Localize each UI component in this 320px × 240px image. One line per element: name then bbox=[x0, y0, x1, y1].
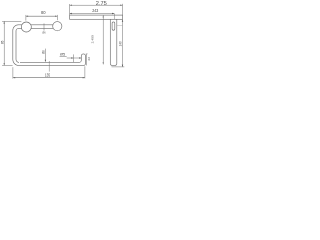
hook height rotated text 22 bbox=[87, 57, 91, 61]
svg-text:2.75: 2.75 bbox=[96, 1, 107, 7]
dimension 243 line bbox=[70, 13, 115, 15]
dimension 15 arrow at hook bbox=[79, 57, 81, 58]
dimension 240 bottom arrow bbox=[122, 65, 123, 67]
dimension 135 left arrow bbox=[13, 77, 15, 78]
dimension 60 right arrow bbox=[55, 16, 57, 17]
svg-text:Ø6: Ø6 bbox=[42, 32, 46, 35]
hook top extension tick bbox=[86, 53, 88, 55]
dimension 243 right arrow bbox=[112, 13, 114, 14]
bar rod dimension arrow bbox=[45, 60, 46, 62]
slot extension line bbox=[117, 25, 122, 27]
dimension 60 left arrow bbox=[26, 16, 28, 17]
inner vertical dimension bottom arrow bbox=[103, 62, 104, 64]
dimension 2.75 right arrow bbox=[120, 5, 122, 6]
bottom extension line left bbox=[2, 64, 13, 66]
dimension 60 text bbox=[41, 10, 46, 15]
front bar rectangle bbox=[70, 15, 123, 19]
dimension 60 right extension tick bbox=[56, 15, 58, 20]
extension line right 275 bbox=[122, 4, 124, 15]
dimension 15 leader underline bbox=[60, 55, 67, 57]
tube inner contour bbox=[16, 29, 22, 63]
dimension 15 cross extension tick bbox=[72, 54, 74, 62]
dimension 85 bottom arrow bbox=[3, 63, 4, 65]
dimension 85 vertical line bbox=[3, 21, 5, 65]
svg-text:135: 135 bbox=[45, 72, 51, 77]
svg-text:22: 22 bbox=[87, 57, 91, 61]
svg-text:Ø5: Ø5 bbox=[60, 52, 66, 57]
dimension 243 text bbox=[92, 8, 99, 13]
dimension 240 top arrow bbox=[122, 20, 123, 22]
end knob circle C2 bbox=[53, 22, 62, 31]
svg-text:Ø8: Ø8 bbox=[42, 50, 46, 54]
top bar diameter label bbox=[42, 32, 46, 35]
dimension 135 right arrow bbox=[83, 77, 85, 78]
svg-text:243: 243 bbox=[92, 8, 99, 13]
bar rod rotated text bbox=[42, 50, 46, 54]
dimension 135 line bbox=[13, 77, 85, 79]
dimension 135 text bbox=[45, 72, 51, 77]
dimension 243 extension line bbox=[113, 14, 115, 20]
bottom bar center tick bbox=[48, 61, 50, 72]
extension line left of bar bbox=[69, 4, 71, 15]
wall post outline bbox=[110, 19, 117, 65]
dimension diameter 5 text bbox=[60, 52, 66, 57]
svg-text:80: 80 bbox=[41, 10, 46, 15]
svg-text:85: 85 bbox=[1, 40, 5, 44]
top bar lines between circles bbox=[31, 25, 53, 29]
tube outer contour (top elbow, wall leg, bottom bar, hook end) bbox=[13, 25, 86, 66]
dimension 240 line bbox=[122, 20, 124, 67]
dimension 135 left extension bbox=[12, 67, 14, 78]
hook height dimension line bbox=[86, 54, 88, 65]
bar rod diameter dimension line x45 bbox=[44, 49, 46, 62]
dimension 85 rotated text bbox=[1, 40, 5, 44]
dimension 2.75 text bbox=[96, 1, 107, 7]
keyhole slot bbox=[112, 22, 115, 30]
dimension 240 rotated text bbox=[119, 41, 123, 46]
top extension line to circle bbox=[2, 20, 21, 22]
dimension 243 left arrow bbox=[70, 13, 72, 14]
flange circle C1 bbox=[21, 22, 31, 32]
dimension 15 arrow at tick bbox=[71, 57, 73, 58]
dimension 135 right extension bbox=[84, 66, 86, 78]
inner vertical dimension top arrow bbox=[103, 15, 104, 17]
dimension 240 bottom extension bbox=[112, 66, 125, 68]
svg-text:240: 240 bbox=[119, 41, 123, 46]
dimension 60 line bbox=[26, 15, 58, 17]
inner vertical dimension line bbox=[102, 15, 104, 64]
svg-text:2.400: 2.400 bbox=[90, 35, 94, 44]
top bar center tick bbox=[43, 23, 45, 30]
dimension 60 left extension tick bbox=[25, 15, 27, 21]
inner vertical dimension rotated text 2.400 bbox=[90, 35, 94, 44]
dimension 2.75 line bbox=[70, 4, 123, 6]
dimension 2.75 left arrow bbox=[70, 5, 72, 6]
dimension 85 top arrow bbox=[3, 21, 4, 23]
dimension 15 line bbox=[67, 57, 82, 59]
